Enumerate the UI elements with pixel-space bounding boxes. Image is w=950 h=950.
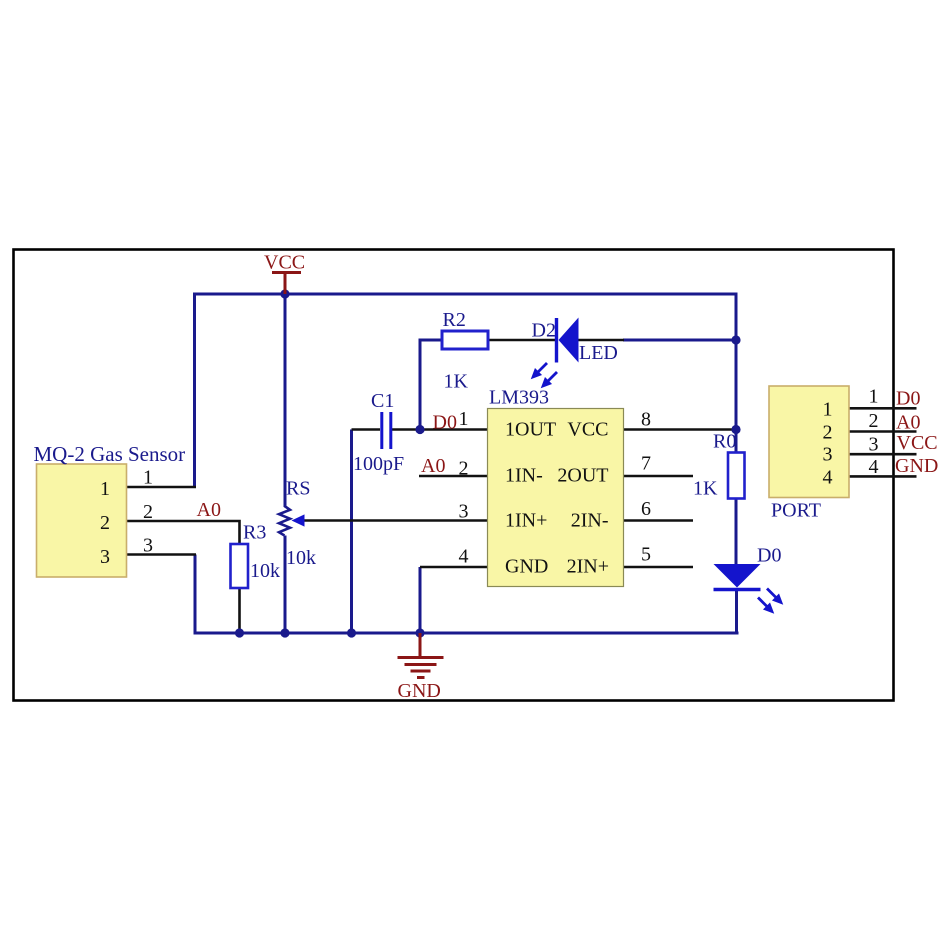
- MQ-2 inside pin numbers: [100, 478, 110, 568]
- svg-text:100pF: 100pF: [353, 453, 404, 475]
- wire MQ-2 pin1: [127, 486, 197, 489]
- node D0 junction: [415, 425, 424, 434]
- resistor R3: [231, 544, 249, 588]
- svg-text:4: 4: [869, 456, 879, 478]
- wire RS bottom vertical: [284, 536, 287, 634]
- wire C1 left lead: [352, 428, 381, 431]
- svg-text:GND: GND: [398, 680, 441, 702]
- diode D2 emission arrows: [527, 359, 560, 391]
- svg-text:VCC: VCC: [897, 432, 938, 454]
- node GND symbol junction: [415, 628, 424, 637]
- wire D2 to right rail: [623, 339, 736, 342]
- U1 right pin numbers 8 7 6 5: [641, 409, 651, 566]
- ground symbol: [398, 633, 444, 678]
- wire left vertical lower: [194, 555, 197, 634]
- diode D2 LED triangle: [559, 318, 579, 363]
- border frame: [14, 250, 894, 701]
- svg-text:1IN-: 1IN-: [505, 465, 543, 487]
- svg-text:D0: D0: [757, 545, 781, 567]
- wire R0 bottom to D0 LED: [735, 499, 738, 565]
- diode D0 LED triangle: [714, 564, 761, 588]
- svg-text:R3: R3: [243, 522, 266, 544]
- svg-text:A0: A0: [896, 412, 920, 434]
- potentiometer RS zigzag: [279, 506, 290, 536]
- wire R2 to D2: [488, 339, 556, 342]
- svg-text:1: 1: [459, 408, 469, 430]
- svg-text:D0: D0: [896, 388, 920, 410]
- U1 pin names right column: [557, 419, 609, 578]
- diode D0 emission arrows: [754, 585, 786, 617]
- wire IC pin5: [624, 566, 694, 569]
- node RS-GND junction: [280, 628, 289, 637]
- svg-text:LM393: LM393: [489, 387, 549, 409]
- svg-text:1: 1: [869, 386, 879, 408]
- connector PORT body: [769, 386, 849, 498]
- svg-text:2: 2: [869, 410, 879, 432]
- svg-text:1K: 1K: [693, 478, 718, 500]
- svg-text:8: 8: [641, 409, 651, 431]
- svg-text:A0: A0: [197, 499, 221, 521]
- svg-text:3: 3: [869, 434, 879, 456]
- svg-text:VCC: VCC: [264, 252, 305, 274]
- wire C1 right lead: [391, 428, 420, 431]
- svg-text:5: 5: [641, 544, 651, 566]
- diode D0 LED cathode bar: [714, 588, 761, 591]
- svg-text:10k: 10k: [286, 547, 316, 569]
- comparator U1 LM393 body: [488, 409, 624, 587]
- node C1-GND junction: [347, 628, 356, 637]
- svg-text:3: 3: [100, 546, 110, 568]
- node R3-GND junction: [235, 628, 244, 637]
- wire R3 bottom lead: [238, 588, 241, 633]
- power VCC symbol: [272, 273, 301, 295]
- diode D2 LED cathode bar: [555, 318, 558, 363]
- wire PORT pin4: [849, 475, 917, 478]
- svg-text:1K: 1K: [444, 371, 469, 393]
- svg-text:6: 6: [641, 498, 651, 520]
- svg-text:3: 3: [143, 535, 153, 557]
- svg-text:LED: LED: [579, 342, 618, 364]
- svg-text:2IN-: 2IN-: [571, 510, 609, 532]
- MQ-2 outside pin numbers: [143, 467, 153, 557]
- svg-text:2: 2: [100, 512, 110, 534]
- svg-text:1IN+: 1IN+: [505, 510, 547, 532]
- svg-text:MQ-2 Gas Sensor: MQ-2 Gas Sensor: [34, 442, 186, 466]
- svg-text:2IN+: 2IN+: [567, 556, 609, 578]
- svg-text:R2: R2: [443, 309, 466, 331]
- svg-text:1: 1: [100, 478, 110, 500]
- wire IC pin7: [624, 475, 694, 478]
- wire R2 left vertical to node D0: [420, 340, 442, 430]
- svg-text:GND: GND: [505, 556, 548, 578]
- svg-text:4: 4: [823, 467, 833, 489]
- wire PORT pin3: [849, 453, 917, 456]
- wire MQ-2 pin3: [127, 553, 197, 556]
- wire VCC top rail: [195, 293, 738, 296]
- wire VCC-to-RS vertical: [284, 294, 287, 507]
- wire MQ-2 pin2 net A0: [127, 521, 240, 544]
- svg-text:1OUT: 1OUT: [505, 419, 556, 441]
- svg-text:2: 2: [823, 421, 833, 443]
- svg-text:C1: C1: [371, 390, 394, 412]
- wire PORT pin1: [849, 407, 917, 410]
- node D2-rail junction: [731, 335, 740, 344]
- svg-text:3: 3: [823, 444, 833, 466]
- svg-text:RS: RS: [286, 478, 310, 500]
- svg-text:1: 1: [143, 467, 153, 489]
- svg-text:10k: 10k: [250, 560, 280, 582]
- svg-text:A0: A0: [421, 455, 445, 477]
- svg-text:D2: D2: [532, 320, 556, 342]
- svg-text:7: 7: [641, 453, 651, 475]
- sensor MQ-2 body: [37, 464, 127, 577]
- svg-text:2OUT: 2OUT: [557, 465, 608, 487]
- wire net A0 to IC pin2: [419, 475, 488, 478]
- svg-text:R0: R0: [713, 431, 736, 453]
- svg-text:PORT: PORT: [771, 500, 821, 522]
- svg-text:GND: GND: [895, 455, 938, 477]
- node VCC junction: [280, 289, 289, 298]
- wire IC pin4 vertical to rail: [419, 567, 422, 633]
- wire D0 LED cathode to rail: [735, 590, 738, 634]
- svg-text:D0: D0: [433, 412, 457, 434]
- wire IC pin8 to right rail: [624, 428, 737, 431]
- wire D2 right lead: [578, 339, 624, 342]
- svg-text:2: 2: [143, 501, 153, 523]
- svg-text:4: 4: [459, 546, 469, 568]
- PORT outside pin numbers: [869, 386, 879, 479]
- wire node D0 to IC pin1: [420, 428, 488, 431]
- wire C1 left lead vertical: [350, 430, 353, 634]
- U1 left pin numbers 1 2 3 4: [459, 408, 469, 568]
- svg-text:2: 2: [459, 458, 469, 480]
- svg-text:VCC: VCC: [567, 419, 608, 441]
- wire bottom GND rail: [194, 632, 739, 635]
- PORT inside pin numbers: [823, 398, 833, 488]
- svg-text:3: 3: [459, 501, 469, 523]
- wire right vertical rail: [735, 293, 738, 453]
- wire PORT pin2: [849, 430, 917, 433]
- node pin8-rail junction: [731, 425, 740, 434]
- wire left vertical upper: [193, 293, 196, 488]
- svg-text:1: 1: [823, 398, 833, 420]
- capacitor C1 plates: [382, 412, 391, 449]
- wire RS wiper to IC pin3: [304, 519, 488, 522]
- wire IC pin4 lead: [420, 566, 488, 569]
- potentiometer RS wiper arrow: [292, 514, 305, 526]
- resistor R0: [728, 453, 745, 499]
- resistor R2: [442, 331, 488, 349]
- U1 pin names left column: [505, 419, 556, 578]
- wire IC pin6: [624, 519, 694, 522]
